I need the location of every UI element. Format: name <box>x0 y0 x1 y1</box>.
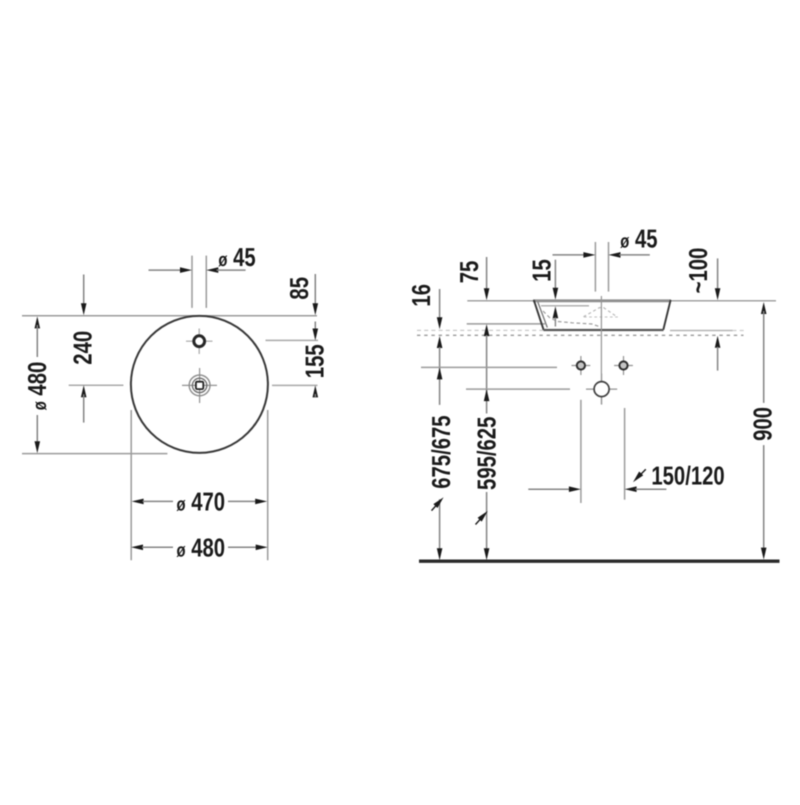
bottom tangent extension line <box>22 453 167 455</box>
drain middle circle <box>192 378 206 392</box>
dim ø480 vertical line <box>35 316 41 328</box>
console bottom dashed line <box>417 334 744 336</box>
basin left wall <box>534 300 544 330</box>
dim ø45 extension lines (top) <box>191 256 193 308</box>
basin interior dome base dashed <box>584 316 618 318</box>
dim 150/120 arrows <box>528 488 570 490</box>
svg-text:150/120: 150/120 <box>651 461 724 491</box>
dim 675/675 vertical line <box>439 347 441 405</box>
svg-text:240: 240 <box>68 331 98 365</box>
leader arrow 675/675 <box>432 501 441 511</box>
bottom extension line right <box>267 410 269 560</box>
svg-text:ø 470: ø 470 <box>177 487 226 517</box>
leader arrow 595/625 <box>476 514 485 524</box>
basin rim circle <box>131 316 268 453</box>
floor line <box>419 560 780 563</box>
bottom extension line left <box>130 410 132 560</box>
fixing hole left <box>572 356 591 375</box>
drain height extension line <box>466 388 570 390</box>
dim 75 lower arrow at 75-line <box>484 324 490 336</box>
centerline <box>600 296 602 404</box>
basin bottom edge <box>543 329 663 331</box>
svg-text:675/675: 675/675 <box>426 415 456 488</box>
dim ø45 dimension line (side view) <box>553 254 585 256</box>
wall drain circle <box>594 382 609 397</box>
dim ø45 extension lines (side view) <box>594 242 596 292</box>
basin inner shelf line <box>541 305 589 307</box>
dim 595/625 arrow at drain line <box>484 389 490 401</box>
fixing hole right <box>614 356 633 375</box>
svg-text:ø 45: ø 45 <box>620 223 657 253</box>
svg-text:ø 45: ø 45 <box>218 242 255 272</box>
console shelf line right <box>670 330 733 332</box>
dim ø480 bottom <box>131 545 143 551</box>
drain extension line left <box>69 384 124 386</box>
dim 675/675 arrow at holes line <box>437 367 443 379</box>
basin interior dome dashed <box>584 308 618 317</box>
dim 155 lower arrow <box>313 385 319 397</box>
faucet hole crosshair <box>186 329 213 355</box>
leader arrow 150/120 <box>636 469 646 479</box>
faucet extension line right <box>266 339 319 341</box>
basin inner left wall <box>538 302 548 328</box>
drain crosshair <box>182 368 217 403</box>
dim 240 lower arrow <box>81 385 87 397</box>
dim ø470 <box>132 499 144 505</box>
rim level line <box>467 300 776 302</box>
svg-text:ø 480: ø 480 <box>177 533 226 563</box>
svg-text:ø 480: ø 480 <box>22 362 52 411</box>
basin right wall <box>663 300 670 330</box>
dim 595/625 vertical line <box>486 335 488 413</box>
svg-text:75: 75 <box>454 261 484 284</box>
line 75 below rim <box>467 323 545 325</box>
dim 85 line and arrows <box>314 274 316 306</box>
svg-text:900: 900 <box>748 407 778 441</box>
drain outer circle <box>189 375 210 396</box>
top tangent extension line <box>22 315 317 317</box>
svg-text:595/625: 595/625 <box>472 417 502 490</box>
fixing holes extension line <box>421 366 557 368</box>
drain center square <box>196 382 203 389</box>
svg-text:155: 155 <box>299 344 329 378</box>
console top dashed line <box>417 329 543 331</box>
drain extension line right <box>272 384 318 386</box>
dim 900 <box>761 302 767 314</box>
wall drain crosshair <box>586 374 617 405</box>
dim 150/120 extension lines <box>580 400 582 503</box>
faucet hole <box>194 336 205 347</box>
svg-text:15: 15 <box>527 259 557 282</box>
basin interior bowl dashed contour <box>543 311 600 327</box>
basin top edge <box>533 299 671 302</box>
dim 240 line upper arrow <box>83 275 85 306</box>
dim ø45 dimension line <box>149 269 183 271</box>
svg-text:85: 85 <box>284 277 314 300</box>
svg-text:~100: ~100 <box>683 248 713 294</box>
svg-text:16: 16 <box>406 284 436 307</box>
